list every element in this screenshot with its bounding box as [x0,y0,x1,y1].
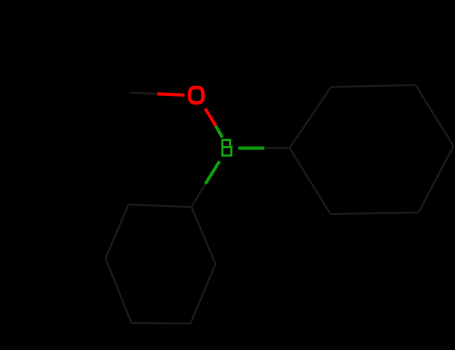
wire C3'-C4' [106,259,132,324]
wire C5-C6 [331,213,419,215]
wire C3-C4 [416,85,454,146]
wire C2'-C3' [106,205,129,259]
wire B-C1' boron half (green) [205,161,219,184]
wire O-B boron half (green) [216,126,223,138]
wire O-CH3 oxygen half (red) [157,94,184,95]
wire C4-C5 [419,146,454,213]
wire C4'-C5' [132,322,191,325]
wire O-CH3 carbon half (dark) [129,93,157,94]
wire C1'-C2' [129,205,192,208]
wire C1-C2 [290,87,332,148]
wire C6'-C1' [192,207,216,264]
atom label O (oxygen, red) [190,88,203,103]
wire C5'-C6' [191,264,216,324]
wire B-C1' carbon half (dark) [192,184,206,207]
wire C6-C1 [290,148,331,214]
atom label B (boron, green) [221,139,231,157]
wire B-C1 boron half (green) [238,147,264,150]
wire O-B oxygen half (red) [205,109,216,126]
wire C2-C3 [331,85,416,87]
wire B-C1 carbon half (dark) [264,147,290,149]
